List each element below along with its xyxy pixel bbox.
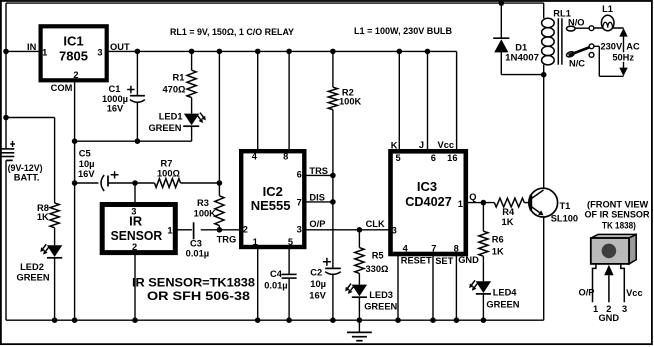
svg-text:1: 1 [42,47,47,57]
svg-text:SENSOR: SENSOR [111,228,163,243]
svg-text:1: 1 [167,226,172,236]
svg-text:5: 5 [288,237,293,247]
svg-text:N/C: N/C [569,59,585,69]
svg-text:C4: C4 [270,269,283,279]
svg-text:3: 3 [392,226,397,236]
svg-text:OF IR SENSOR: OF IR SENSOR [585,209,650,220]
svg-text:OUT: OUT [110,42,130,52]
svg-text:1K: 1K [502,217,514,227]
svg-text:4: 4 [252,151,258,161]
svg-text:1K: 1K [37,212,49,222]
svg-text:IC1: IC1 [63,33,83,48]
svg-text:16V: 16V [107,104,124,114]
svg-text:10µ: 10µ [310,279,326,289]
svg-text:SL100: SL100 [551,213,578,223]
svg-text:RESET: RESET [401,256,432,266]
svg-text:LED3: LED3 [369,290,393,300]
svg-text:SET: SET [435,256,453,266]
svg-text:LED1: LED1 [159,112,183,122]
svg-text:1: 1 [458,199,463,209]
svg-text:IR SENSOR=TK1838: IR SENSOR=TK1838 [132,277,256,289]
svg-text:GND: GND [458,255,479,265]
svg-text:C3: C3 [190,238,202,248]
svg-text:R6: R6 [492,235,504,245]
svg-text:Q: Q [469,192,476,202]
svg-text:R5: R5 [372,251,384,261]
svg-text:C1: C1 [109,84,121,94]
svg-text:CD4027: CD4027 [405,194,452,209]
svg-text:1N4007: 1N4007 [505,52,539,62]
svg-text:330Ω: 330Ω [366,264,390,274]
svg-text:100Ω: 100Ω [157,169,181,179]
svg-text:GREEN: GREEN [16,273,49,283]
svg-text:K: K [391,140,398,150]
svg-text:0.01µ: 0.01µ [264,280,287,290]
svg-text:5: 5 [396,153,401,163]
svg-text:16: 16 [447,153,457,163]
svg-text:470Ω: 470Ω [163,85,187,95]
svg-text:7: 7 [297,198,302,208]
svg-text:C2: C2 [310,268,322,278]
svg-text:8: 8 [283,151,288,161]
svg-text:100K: 100K [194,208,217,218]
svg-text:NE555: NE555 [251,198,291,213]
svg-text:GREEN: GREEN [486,300,519,310]
svg-text:100K: 100K [339,97,362,107]
svg-text:1K: 1K [492,247,504,257]
svg-text:1: 1 [593,304,598,314]
svg-text:C5: C5 [79,149,91,159]
svg-text:LED2: LED2 [20,262,44,272]
svg-text:6: 6 [431,153,436,163]
svg-text:TRS: TRS [309,166,328,176]
svg-text:2: 2 [243,224,248,234]
svg-text:GREEN: GREEN [364,301,397,311]
svg-text:16V: 16V [309,290,326,300]
svg-text:IR: IR [129,214,143,229]
svg-text:6: 6 [297,170,302,180]
svg-text:D1: D1 [515,42,527,52]
svg-text:TRG: TRG [217,235,237,245]
svg-text:L1: L1 [602,4,613,14]
svg-text:Vcc: Vcc [626,288,643,298]
svg-text:16V: 16V [78,169,95,179]
svg-text:0.01µ: 0.01µ [186,249,209,259]
svg-text:3: 3 [622,304,627,314]
svg-text:R3: R3 [197,198,209,208]
svg-text:8: 8 [454,243,459,253]
svg-text:T1: T1 [560,201,571,211]
svg-text:LED4: LED4 [493,287,518,297]
svg-text:R1: R1 [173,73,185,83]
svg-text:2: 2 [73,70,78,80]
svg-text:CLK: CLK [366,219,385,229]
svg-text:TK 1838): TK 1838) [602,220,636,231]
svg-text:BATT.: BATT. [14,172,40,182]
svg-text:DIS: DIS [309,193,325,203]
svg-text:RL1 = 9V, 150Ω, 1 C/O RELAY: RL1 = 9V, 150Ω, 1 C/O RELAY [170,27,294,37]
svg-text:O/P: O/P [578,288,594,298]
svg-text:7805: 7805 [59,49,88,64]
svg-text:50Hz: 50Hz [612,53,634,63]
svg-text:3: 3 [97,47,102,57]
svg-text:O/P: O/P [309,219,325,229]
svg-text:230V: 230V [600,41,623,51]
svg-text:10µ: 10µ [79,159,95,169]
svg-text:IC3: IC3 [417,179,437,194]
svg-text:R7: R7 [161,159,173,169]
svg-text:R4: R4 [502,207,515,217]
svg-text:IC2: IC2 [263,184,283,199]
svg-text:1000µ: 1000µ [102,94,128,104]
svg-text:IN: IN [27,42,37,52]
svg-text:1: 1 [253,237,258,247]
svg-text:J: J [419,140,424,150]
svg-text:7: 7 [431,243,436,253]
svg-text:OR SFH 506-38: OR SFH 506-38 [147,291,251,303]
svg-text:4: 4 [403,243,409,253]
svg-text:Vcc: Vcc [438,140,455,150]
svg-text:GND: GND [598,313,619,323]
svg-text:L1 = 100W, 230V BULB: L1 = 100W, 230V BULB [354,26,452,36]
svg-text:GREEN: GREEN [148,123,181,133]
svg-text:3: 3 [297,224,302,234]
svg-text:COM: COM [51,83,73,93]
svg-text:AC: AC [626,41,640,51]
svg-text:2: 2 [132,242,137,252]
svg-text:N/O: N/O [568,18,585,28]
